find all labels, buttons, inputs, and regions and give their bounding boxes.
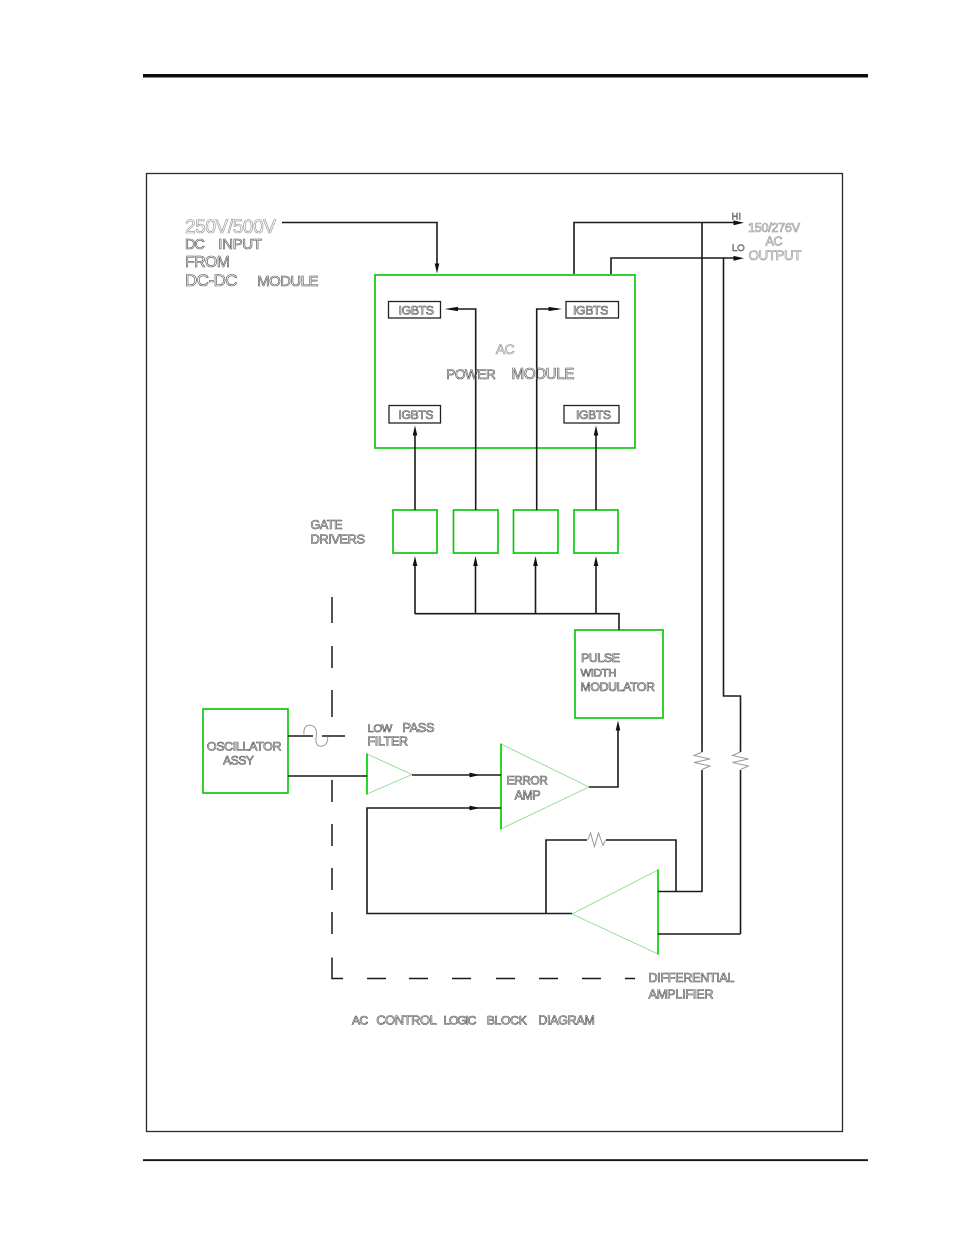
svg-text:WIDTH: WIDTH <box>581 668 617 680</box>
svg-text:DIFFERENTIAL: DIFFERENTIAL <box>649 971 735 985</box>
svg-text:INPUT: INPUT <box>218 236 262 253</box>
svg-text:BLOCK: BLOCK <box>487 1014 528 1028</box>
svg-text:LO: LO <box>732 243 745 254</box>
svg-text:HI: HI <box>732 212 742 223</box>
svg-text:DC-DC: DC-DC <box>185 271 238 290</box>
svg-text:PULSE: PULSE <box>581 651 620 665</box>
svg-text:MODULATOR: MODULATOR <box>581 680 656 694</box>
svg-text:ERROR: ERROR <box>507 774 549 788</box>
svg-text:POWER: POWER <box>446 367 496 382</box>
svg-text:MODULE: MODULE <box>512 366 575 383</box>
svg-text:GATE: GATE <box>311 518 343 532</box>
svg-text:DC: DC <box>185 237 205 253</box>
svg-text:IGBTS: IGBTS <box>573 304 608 318</box>
svg-text:FILTER: FILTER <box>368 735 409 749</box>
svg-text:IGBTS: IGBTS <box>399 408 434 422</box>
svg-text:MODULE: MODULE <box>257 274 318 290</box>
svg-text:FROM: FROM <box>185 254 230 271</box>
svg-text:AC: AC <box>766 235 783 249</box>
svg-text:PASS: PASS <box>402 720 434 735</box>
svg-text:150/276V: 150/276V <box>748 221 801 235</box>
svg-text:AMPLIFIER: AMPLIFIER <box>649 987 714 1002</box>
svg-text:AMP: AMP <box>515 789 541 803</box>
svg-text:IGBTS: IGBTS <box>576 408 611 422</box>
svg-text:IGBTS: IGBTS <box>399 304 434 318</box>
svg-text:OSCILLATOR: OSCILLATOR <box>207 740 282 754</box>
svg-text:250V/500V: 250V/500V <box>185 217 276 238</box>
svg-text:LOGIC: LOGIC <box>444 1014 477 1028</box>
svg-text:LOW: LOW <box>368 723 393 735</box>
svg-text:DIAGRAM: DIAGRAM <box>538 1014 595 1028</box>
svg-text:OUTPUT: OUTPUT <box>749 248 802 263</box>
svg-text:ASSY: ASSY <box>223 754 254 768</box>
svg-text:DRIVERS: DRIVERS <box>311 532 366 547</box>
svg-text:CONTROL: CONTROL <box>376 1013 437 1028</box>
svg-text:AC: AC <box>352 1014 369 1028</box>
svg-text:AC: AC <box>496 341 515 357</box>
